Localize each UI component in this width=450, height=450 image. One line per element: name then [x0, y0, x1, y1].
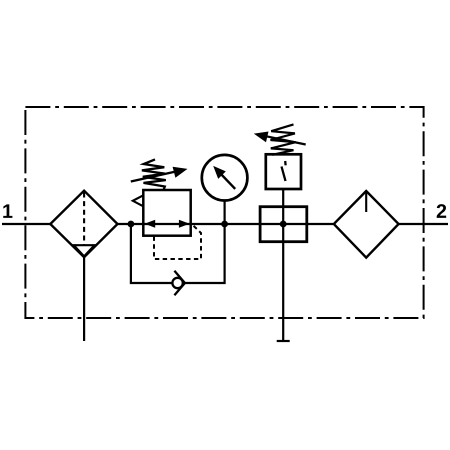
pressure switch S1 adjustment arrow: [254, 132, 306, 145]
filter F1 with water separator (diamond): [50, 191, 117, 258]
node: distributor junction: [280, 221, 287, 228]
wire: main line filter to right diamond (through regulator and distributor): [118, 223, 334, 225]
regulator R1 adjustment spring: [142, 159, 166, 190]
port 1 label: [3, 204, 12, 218]
regulator R1 body: [143, 190, 190, 236]
regulator R1 relief seat (left caret): [133, 195, 144, 206]
enclosure boundary (dash-dot assembly frame): [25, 107, 423, 318]
wire: gauge stem: [224, 201, 226, 225]
wire: bypass branch (right up to gauge node): [185, 224, 225, 283]
pilot line (dashed) regulator sensing: [154, 225, 201, 259]
wire: right diamond to port 2: [399, 223, 448, 225]
wire: filter condensate drain: [83, 257, 85, 341]
lubricator L1 (right diamond): [334, 191, 399, 258]
port 2 label: [437, 204, 446, 218]
pressure switch S1 spring: [271, 124, 296, 154]
wire: inlet port 1 to filter: [2, 223, 50, 225]
vent line end bar: [277, 340, 290, 342]
wire: bypass branch (left down): [131, 224, 172, 283]
check valve V1: [172, 271, 184, 295]
pressure switch S1 contact: [282, 161, 286, 181]
pressure switch S1 body: [266, 154, 301, 189]
node: junction upstream of regulator: [127, 221, 134, 228]
regulator R1 flow arrows: [145, 220, 190, 228]
pressure gauge G1: [202, 155, 248, 201]
distributor block D1: [260, 207, 307, 242]
regulator R1 adjustment arrow: [131, 167, 188, 182]
wire: branch from distributor up to pressure switch and down to vent: [282, 189, 284, 341]
node: gauge / bypass junction: [221, 221, 228, 228]
